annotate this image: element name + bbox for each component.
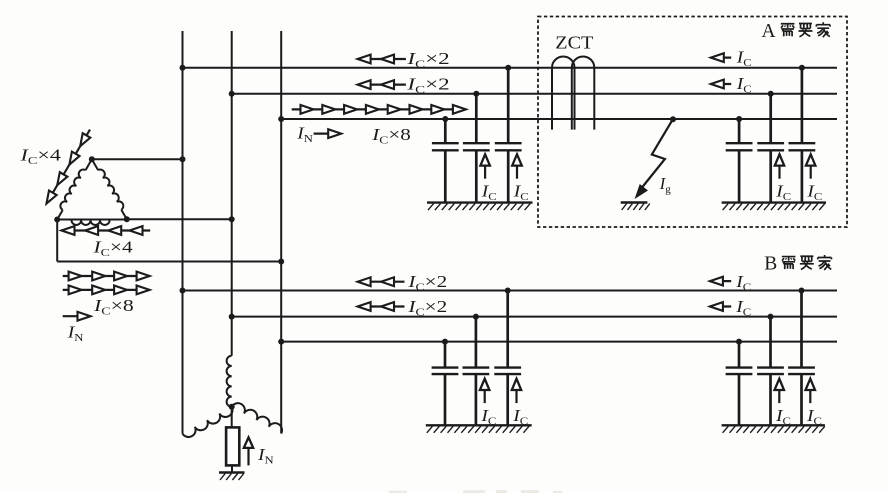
svg-text:IC×8: IC×8 bbox=[93, 297, 134, 317]
svg-text:A: A bbox=[762, 21, 776, 42]
svg-text:B: B bbox=[764, 254, 777, 275]
svg-text:IC×4: IC×4 bbox=[19, 146, 61, 167]
svg-text:IC×2: IC×2 bbox=[407, 298, 447, 318]
svg-text:IC×2: IC×2 bbox=[407, 273, 447, 293]
svg-text:IC×8: IC×8 bbox=[371, 126, 411, 146]
svg-text:ZCT: ZCT bbox=[555, 34, 593, 54]
svg-text:IC×2: IC×2 bbox=[406, 50, 449, 70]
svg-text:IC×4: IC×4 bbox=[92, 238, 133, 258]
svg-text:IC×2: IC×2 bbox=[406, 75, 449, 95]
